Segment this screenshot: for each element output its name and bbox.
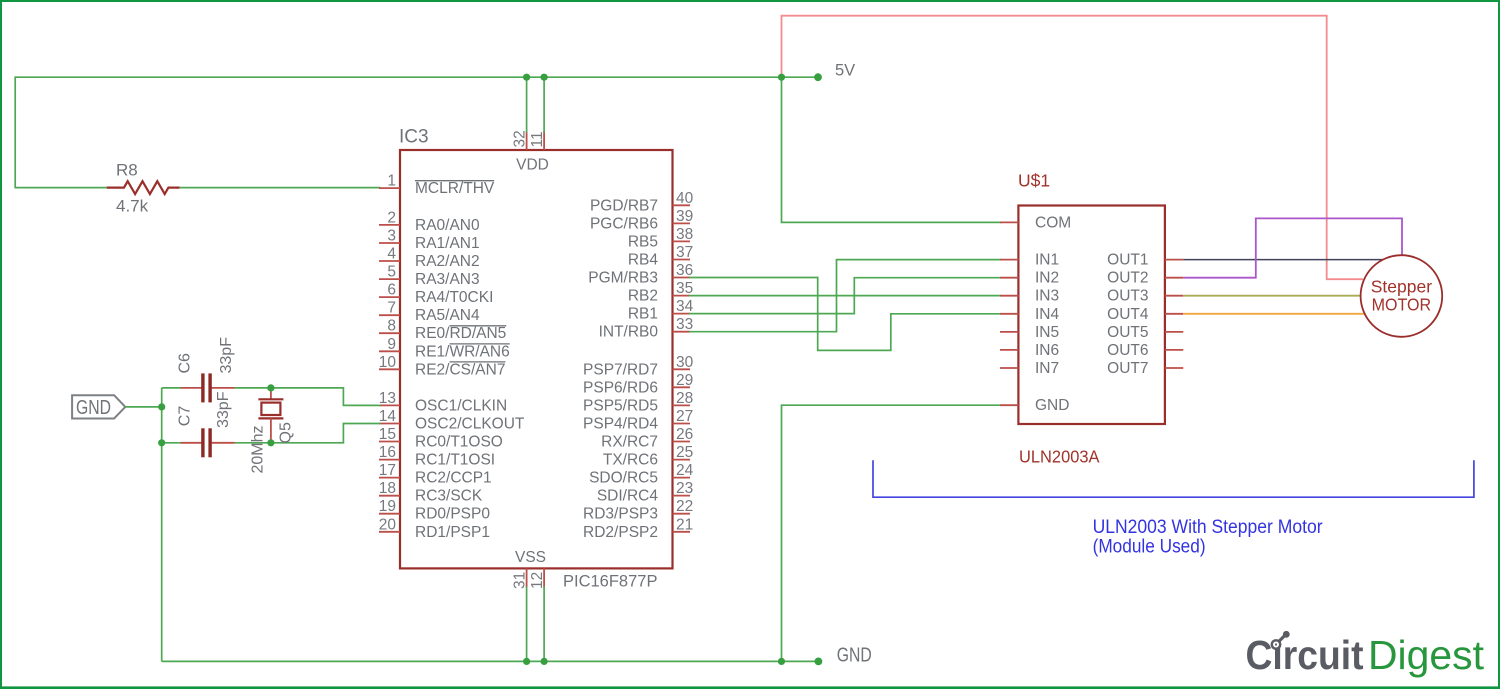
svg-text:RA5/AN4: RA5/AN4	[415, 307, 480, 324]
C6 value 33pF	[218, 337, 235, 374]
svg-text:OUT1: OUT1	[1107, 252, 1148, 269]
svg-text:27: 27	[676, 408, 693, 425]
C6 name label	[177, 353, 194, 374]
svg-text:4.7k: 4.7k	[116, 197, 149, 216]
IC3 pin 32 stub	[526, 132, 528, 151]
svg-text:VDD: VDD	[516, 157, 549, 174]
svg-text:5V: 5V	[835, 62, 855, 80]
svg-text:21: 21	[676, 516, 693, 533]
svg-text:RD1/PSP1: RD1/PSP1	[415, 524, 490, 541]
svg-text:7: 7	[387, 300, 396, 317]
svg-text:19: 19	[379, 498, 396, 515]
IC3 right pin numbers	[676, 190, 694, 534]
wire VSS pin31 to GND rail	[526, 587, 528, 662]
svg-text:28: 28	[676, 390, 693, 407]
stepper motor M1	[1361, 255, 1443, 337]
svg-text:22: 22	[676, 498, 693, 515]
wire 5V left drop	[14, 76, 16, 188]
wire osc left vertical	[161, 388, 163, 662]
IC3 pin 31 number	[512, 572, 529, 589]
svg-text:38: 38	[676, 226, 693, 243]
svg-text:35: 35	[676, 280, 693, 297]
junction 5V at pin32	[523, 74, 530, 81]
U$1 right pin labels	[1107, 252, 1149, 377]
svg-text:OUT6: OUT6	[1107, 342, 1148, 359]
wire OUT1 (dark)	[1183, 259, 1402, 261]
svg-text:33pF: 33pF	[218, 337, 235, 374]
svg-text:3: 3	[387, 228, 396, 245]
svg-text:PGM/RB3: PGM/RB3	[588, 270, 658, 287]
svg-text:33: 33	[676, 316, 693, 333]
Q5 name label	[278, 422, 295, 443]
svg-text:PSP5/RD5: PSP5/RD5	[583, 397, 658, 414]
ground flag GND	[72, 395, 125, 418]
svg-text:16: 16	[379, 444, 396, 461]
svg-text:13: 13	[379, 390, 396, 407]
svg-text:R8: R8	[116, 160, 138, 179]
svg-text:Q5: Q5	[278, 422, 295, 443]
wire OUT3 to motor (olive)	[1183, 295, 1360, 297]
caption line 2	[1093, 536, 1206, 557]
motor label MOTOR	[1372, 295, 1432, 315]
wire C6 left lead	[162, 387, 181, 389]
IC3 pin 11 stub	[543, 132, 545, 151]
svg-text:14: 14	[379, 408, 397, 425]
junction GND flag node	[158, 403, 165, 410]
wire OUT2 to motor (purple)	[1183, 218, 1402, 277]
IC3 left pin stubs 1-20	[379, 188, 400, 532]
wire VSS pin12 to GND rail	[543, 587, 545, 662]
IC3 VDD label	[516, 157, 549, 174]
wire 5V rail top	[15, 76, 818, 78]
IC3 right pin labels	[583, 197, 658, 541]
svg-text:IN1: IN1	[1035, 252, 1059, 269]
junction C7 left	[158, 439, 165, 446]
U$1 part value ULN2003A	[1019, 447, 1100, 467]
svg-text:31: 31	[512, 572, 529, 589]
U$1 body	[1018, 206, 1165, 425]
IC3 name label	[399, 127, 429, 148]
svg-text:IC3: IC3	[399, 127, 429, 148]
IC3 VSS label	[515, 549, 546, 566]
module bracket	[873, 460, 1474, 497]
wire RB3 to IN4	[689, 278, 1001, 351]
svg-text:RB2: RB2	[628, 288, 658, 305]
wire C6 to crystal node	[235, 387, 271, 389]
svg-text:20: 20	[379, 516, 397, 533]
svg-text:8: 8	[387, 318, 396, 335]
svg-text:INT/RB0: INT/RB0	[599, 324, 659, 341]
svg-text:PGC/RB6: PGC/RB6	[590, 215, 658, 232]
IC3 right pin stubs 21-40	[673, 205, 691, 532]
svg-text:18: 18	[379, 480, 396, 497]
svg-text:OSC2/CLKOUT: OSC2/CLKOUT	[415, 416, 525, 433]
svg-text:36: 36	[676, 262, 693, 279]
crystal Q5	[258, 388, 283, 443]
svg-text:RD3/PSP3: RD3/PSP3	[583, 506, 658, 523]
wire C7 left lead	[162, 442, 181, 444]
wire RB2 to IN3	[689, 295, 1001, 297]
svg-text:25: 25	[676, 444, 693, 461]
svg-text:RA1/AN1: RA1/AN1	[415, 235, 480, 252]
wire 5V to R8	[15, 187, 107, 189]
svg-text:24: 24	[676, 462, 694, 479]
svg-text:2: 2	[387, 209, 396, 226]
C7 value 33pF	[215, 391, 232, 428]
C7 name label	[177, 406, 194, 427]
wire C7 to crystal node	[235, 442, 271, 444]
svg-text:20Mhz: 20Mhz	[250, 425, 267, 473]
svg-text:ULN2003 With Stepper Motor: ULN2003 With Stepper Motor	[1093, 517, 1324, 538]
IC3 pin 12 stub	[543, 568, 545, 587]
resistor R8	[107, 181, 180, 194]
CircuitDigest logo	[1246, 631, 1485, 678]
svg-text:9: 9	[387, 336, 396, 353]
svg-text:OUT5: OUT5	[1107, 324, 1148, 341]
junction 5V at pin11	[541, 74, 548, 81]
IC3 pin 32 number	[512, 130, 529, 147]
svg-text:12: 12	[529, 572, 546, 589]
node GND terminal dot	[815, 658, 823, 666]
svg-text:OUT3: OUT3	[1107, 288, 1148, 305]
wire 5V to motor (pink)	[782, 16, 1364, 280]
svg-text:4: 4	[387, 246, 396, 263]
svg-text:30: 30	[676, 354, 694, 371]
svg-text:32: 32	[512, 130, 529, 147]
wire RB0 to IN1	[689, 260, 1001, 332]
wire ULN GND to rail	[782, 405, 1002, 661]
U$1 name label	[1018, 171, 1050, 191]
svg-text:U$1: U$1	[1018, 171, 1050, 191]
wire VDD pin32 to 5V	[526, 77, 528, 132]
junction GND pin31	[523, 658, 530, 665]
U$1 right pin stubs	[1165, 260, 1183, 368]
GND flag text	[76, 397, 111, 419]
svg-text:10: 10	[379, 354, 397, 371]
node 5V terminal dot	[814, 73, 822, 81]
wire RB1 to IN2	[689, 278, 1001, 314]
junction GND uln	[778, 658, 785, 665]
wire VDD pin11 to 5V	[543, 77, 545, 132]
svg-text:COM: COM	[1035, 214, 1071, 231]
R8 name label	[116, 160, 138, 179]
svg-text:RA0/AN0: RA0/AN0	[415, 217, 480, 234]
IC3 left pin labels	[415, 180, 525, 541]
svg-text:15: 15	[379, 426, 396, 443]
svg-text:RD0/PSP0: RD0/PSP0	[415, 506, 490, 523]
svg-text:RE0/RD/AN5: RE0/RD/AN5	[415, 325, 506, 342]
svg-text:GND: GND	[76, 397, 111, 419]
svg-text:OUT4: OUT4	[1107, 306, 1149, 323]
junction crystal bottom	[267, 439, 274, 446]
svg-text:(Module Used): (Module Used)	[1093, 536, 1206, 557]
svg-text:RA4/T0CKI: RA4/T0CKI	[415, 289, 493, 306]
IC3 left pin numbers	[379, 173, 397, 534]
svg-text:39: 39	[676, 208, 693, 225]
svg-text:1: 1	[387, 173, 396, 190]
svg-text:RC1/T1OSI: RC1/T1OSI	[415, 452, 495, 469]
Q5 value 20Mhz	[250, 425, 267, 473]
svg-text:RC3/SCK: RC3/SCK	[415, 488, 483, 505]
svg-text:Cırcuit: Cırcuit	[1246, 632, 1364, 678]
svg-text:PIC16F877P: PIC16F877P	[563, 572, 657, 590]
svg-text:11: 11	[529, 131, 546, 147]
svg-text:6: 6	[387, 282, 396, 299]
svg-text:IN6: IN6	[1035, 342, 1059, 359]
svg-text:RE1/WR/AN6: RE1/WR/AN6	[415, 343, 510, 360]
caption line 1	[1093, 517, 1324, 538]
IC3 pin 11 number	[529, 131, 546, 147]
svg-text:29: 29	[676, 372, 693, 389]
svg-text:PSP6/RD6: PSP6/RD6	[583, 379, 658, 396]
svg-text:RC0/T1OSO: RC0/T1OSO	[415, 434, 503, 451]
node GND label	[837, 645, 872, 667]
svg-text:PGD/RB7: PGD/RB7	[590, 197, 658, 214]
svg-text:IN7: IN7	[1035, 360, 1059, 377]
svg-text:17: 17	[379, 462, 396, 479]
wire crystal bottom to pin14 corner	[271, 424, 380, 443]
svg-text:RA2/AN2: RA2/AN2	[415, 253, 480, 270]
IC3 part value PIC16F877P	[563, 572, 657, 590]
svg-text:26: 26	[676, 426, 693, 443]
svg-text:RB4: RB4	[628, 252, 659, 269]
node 5V label	[835, 62, 855, 80]
svg-text:34: 34	[676, 298, 694, 315]
wire crystal top to pin13 corner	[271, 388, 380, 406]
svg-text:23: 23	[676, 480, 693, 497]
svg-text:RB5: RB5	[628, 233, 658, 250]
wire R8 to MCLR pin1	[180, 187, 381, 189]
svg-text:TX/RC6: TX/RC6	[603, 452, 658, 469]
svg-text:IN3: IN3	[1035, 288, 1059, 305]
capacitor C7	[181, 428, 235, 457]
svg-text:Stepper: Stepper	[1371, 276, 1432, 296]
svg-text:RA3/AN3: RA3/AN3	[415, 271, 480, 288]
junction 5V node	[778, 74, 785, 81]
svg-text:40: 40	[676, 190, 694, 207]
U$1 left pin labels	[1035, 214, 1071, 414]
svg-text:RB1: RB1	[628, 306, 658, 323]
svg-text:GND: GND	[837, 645, 872, 667]
IC3 pin 12 number	[529, 572, 546, 589]
svg-text:SDI/RC4: SDI/RC4	[597, 488, 659, 505]
svg-text:33pF: 33pF	[215, 391, 232, 428]
R8 value 4.7k	[116, 197, 149, 216]
svg-text:RX/RC7: RX/RC7	[601, 434, 658, 451]
svg-text:IN5: IN5	[1035, 324, 1059, 341]
svg-text:37: 37	[676, 244, 693, 261]
junction crystal top	[267, 384, 274, 391]
svg-text:GND: GND	[1035, 397, 1069, 414]
svg-text:ULN2003A: ULN2003A	[1019, 447, 1100, 467]
svg-text:OUT7: OUT7	[1107, 360, 1148, 377]
svg-text:VSS: VSS	[515, 549, 546, 566]
svg-text:C6: C6	[177, 353, 194, 374]
wire GND flag to node	[125, 406, 161, 408]
svg-text:IN2: IN2	[1035, 270, 1059, 287]
svg-text:PSP4/RD4: PSP4/RD4	[583, 416, 658, 433]
svg-text:OSC1/CLKIN: OSC1/CLKIN	[415, 397, 507, 414]
svg-text:Digest: Digest	[1368, 632, 1484, 678]
svg-text:IN4: IN4	[1035, 306, 1060, 323]
svg-text:PSP7/RD7: PSP7/RD7	[583, 361, 658, 378]
svg-text:5: 5	[387, 264, 396, 281]
IC3 body	[400, 150, 673, 568]
junction GND pin12	[541, 658, 548, 665]
svg-text:OUT2: OUT2	[1107, 270, 1148, 287]
motor label Stepper	[1371, 276, 1432, 296]
svg-text:SDO/RC5: SDO/RC5	[589, 470, 658, 487]
capacitor C6	[181, 373, 235, 402]
U$1 left pin stubs	[1000, 222, 1018, 405]
wire OUT4 to motor (orange)	[1183, 313, 1364, 315]
wire 5V to COM	[782, 77, 1002, 222]
svg-text:MCLR/THV: MCLR/THV	[415, 180, 495, 197]
svg-text:RE2/CS/AN7: RE2/CS/AN7	[415, 361, 505, 378]
svg-text:MOTOR: MOTOR	[1372, 295, 1432, 315]
svg-text:RC2/CCP1: RC2/CCP1	[415, 470, 492, 487]
svg-text:RD2/PSP2: RD2/PSP2	[583, 524, 658, 541]
IC3 pin 31 stub	[526, 568, 528, 587]
wire GND rail	[162, 660, 819, 662]
svg-text:C7: C7	[177, 406, 194, 427]
